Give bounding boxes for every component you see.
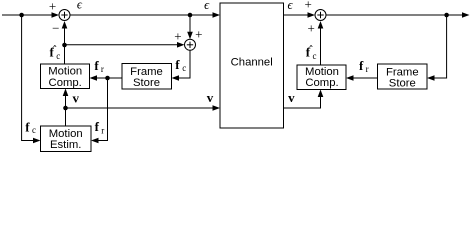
arrowhead into Motion Comp bottom (right) [318,90,324,98]
svg-text:c: c [313,51,317,61]
wire: A2 output down and into Frame Store [178,50,190,78]
svg-text:Store: Store [133,77,160,89]
wire: v to Channel [66,107,214,109]
block: Channel [220,3,284,128]
svg-text:v: v [207,90,214,105]
wire: f_r from Frame Store to Motion Comp (left) [96,77,122,79]
svg-text:−: − [52,21,59,36]
wire: A3 output to decoder output [326,14,463,16]
svg-text:c: c [32,125,36,135]
label f_c (bottom left) [25,119,36,135]
arrowhead into Motion Estim left [33,138,41,144]
block: Motion Comp (left) [41,64,90,89]
svg-text:f: f [94,58,99,73]
wire: epsilon drop into adder A2 [189,15,191,33]
block: Motion Estim [41,126,92,152]
svg-text:f: f [25,119,30,134]
svg-text:r: r [101,64,104,74]
node: f_r tap [105,76,110,81]
wire: f_c-hat up from Motion Comp to A1 [64,27,66,64]
label f_c (into Frame Store) [175,57,186,73]
arrowhead into Motion Comp right (right side) [346,75,354,81]
svg-text:v: v [72,90,79,105]
node: input tap junction [19,13,24,18]
node: output tap to Frame Store [444,13,449,18]
arrowhead into Frame Store (right) [427,75,435,81]
label f_r (right) [359,58,369,74]
node: v branch [63,106,68,111]
arrowhead into A1 left [52,12,60,18]
block: Frame Store (left) [122,64,172,90]
arrowhead into A3 bottom [318,21,324,29]
arrowhead into Motion Comp right [90,75,98,81]
svg-text:Frame: Frame [130,66,163,78]
svg-text:r: r [366,64,369,74]
wire: input line into adder A1 [2,14,53,16]
svg-text:+: + [174,28,181,43]
svg-text:r: r [101,125,104,135]
arrowhead into Motion Comp bottom [63,89,69,97]
arrowhead into Channel left (v) [213,105,221,111]
arrowhead into A3 left [308,12,316,18]
svg-text:Channel: Channel [231,57,273,69]
svg-text:Comp.: Comp. [49,77,82,89]
wire: v from Channel to Motion Comp (right) [284,96,321,109]
adder A3 (summing junction) [315,10,326,21]
arrowhead into A1 bottom [62,21,68,29]
wire: v from Motion Estim up to Motion Comp [65,95,67,127]
svg-text:+: + [195,27,202,42]
block: Frame Store (right) [378,64,428,89]
svg-text:Store: Store [389,77,416,89]
arrowhead into A2 top [187,32,193,40]
svg-text:f: f [359,58,364,73]
svg-text:f: f [95,119,100,134]
svg-text:Comp.: Comp. [305,77,338,89]
node: f_c-hat branch [62,43,67,48]
arrowhead into Frame Store right [172,75,180,81]
label f_r (bottom) [95,119,105,135]
svg-text:+: + [49,0,56,14]
svg-text:+: + [305,0,312,12]
wire: f_c-hat to A2 [65,44,179,46]
label f_r (left, above line) [94,58,104,74]
arrowhead into Channel left (epsilon) [213,12,221,18]
svg-text:f: f [175,57,180,72]
adder A2 (summing junction) [185,39,196,50]
wire: f_r from Frame Store to Motion Comp (right) [353,77,378,79]
arrowhead into A2 left [177,42,185,48]
svg-text:v: v [288,90,295,105]
wire: f_r from tap down to Motion Estim [98,78,108,141]
op-amp? no: adder A1 (summing junction) [59,10,70,21]
wire: f_c from input node down to Motion Estim [22,15,34,141]
block: Motion Comp (right) [297,65,346,90]
arrowhead into Motion Estim right [91,138,99,144]
svg-text:Estim.: Estim. [50,139,81,151]
arrowhead output right [462,12,470,18]
wire: output down into Frame Store (right) [434,15,447,78]
svg-text:+: + [308,21,315,36]
label f_c-hat (right) [306,45,317,62]
wire: Channel to adder A3 [284,14,309,16]
wire: A1 to Channel [70,14,214,16]
label f_c-hat (left) [50,45,61,62]
svg-text:c: c [182,63,186,73]
wire: f_c-hat up from Motion Comp (right) to A3 [320,27,322,65]
node: epsilon tap to A2 [188,13,193,18]
svg-text:c: c [56,51,60,61]
